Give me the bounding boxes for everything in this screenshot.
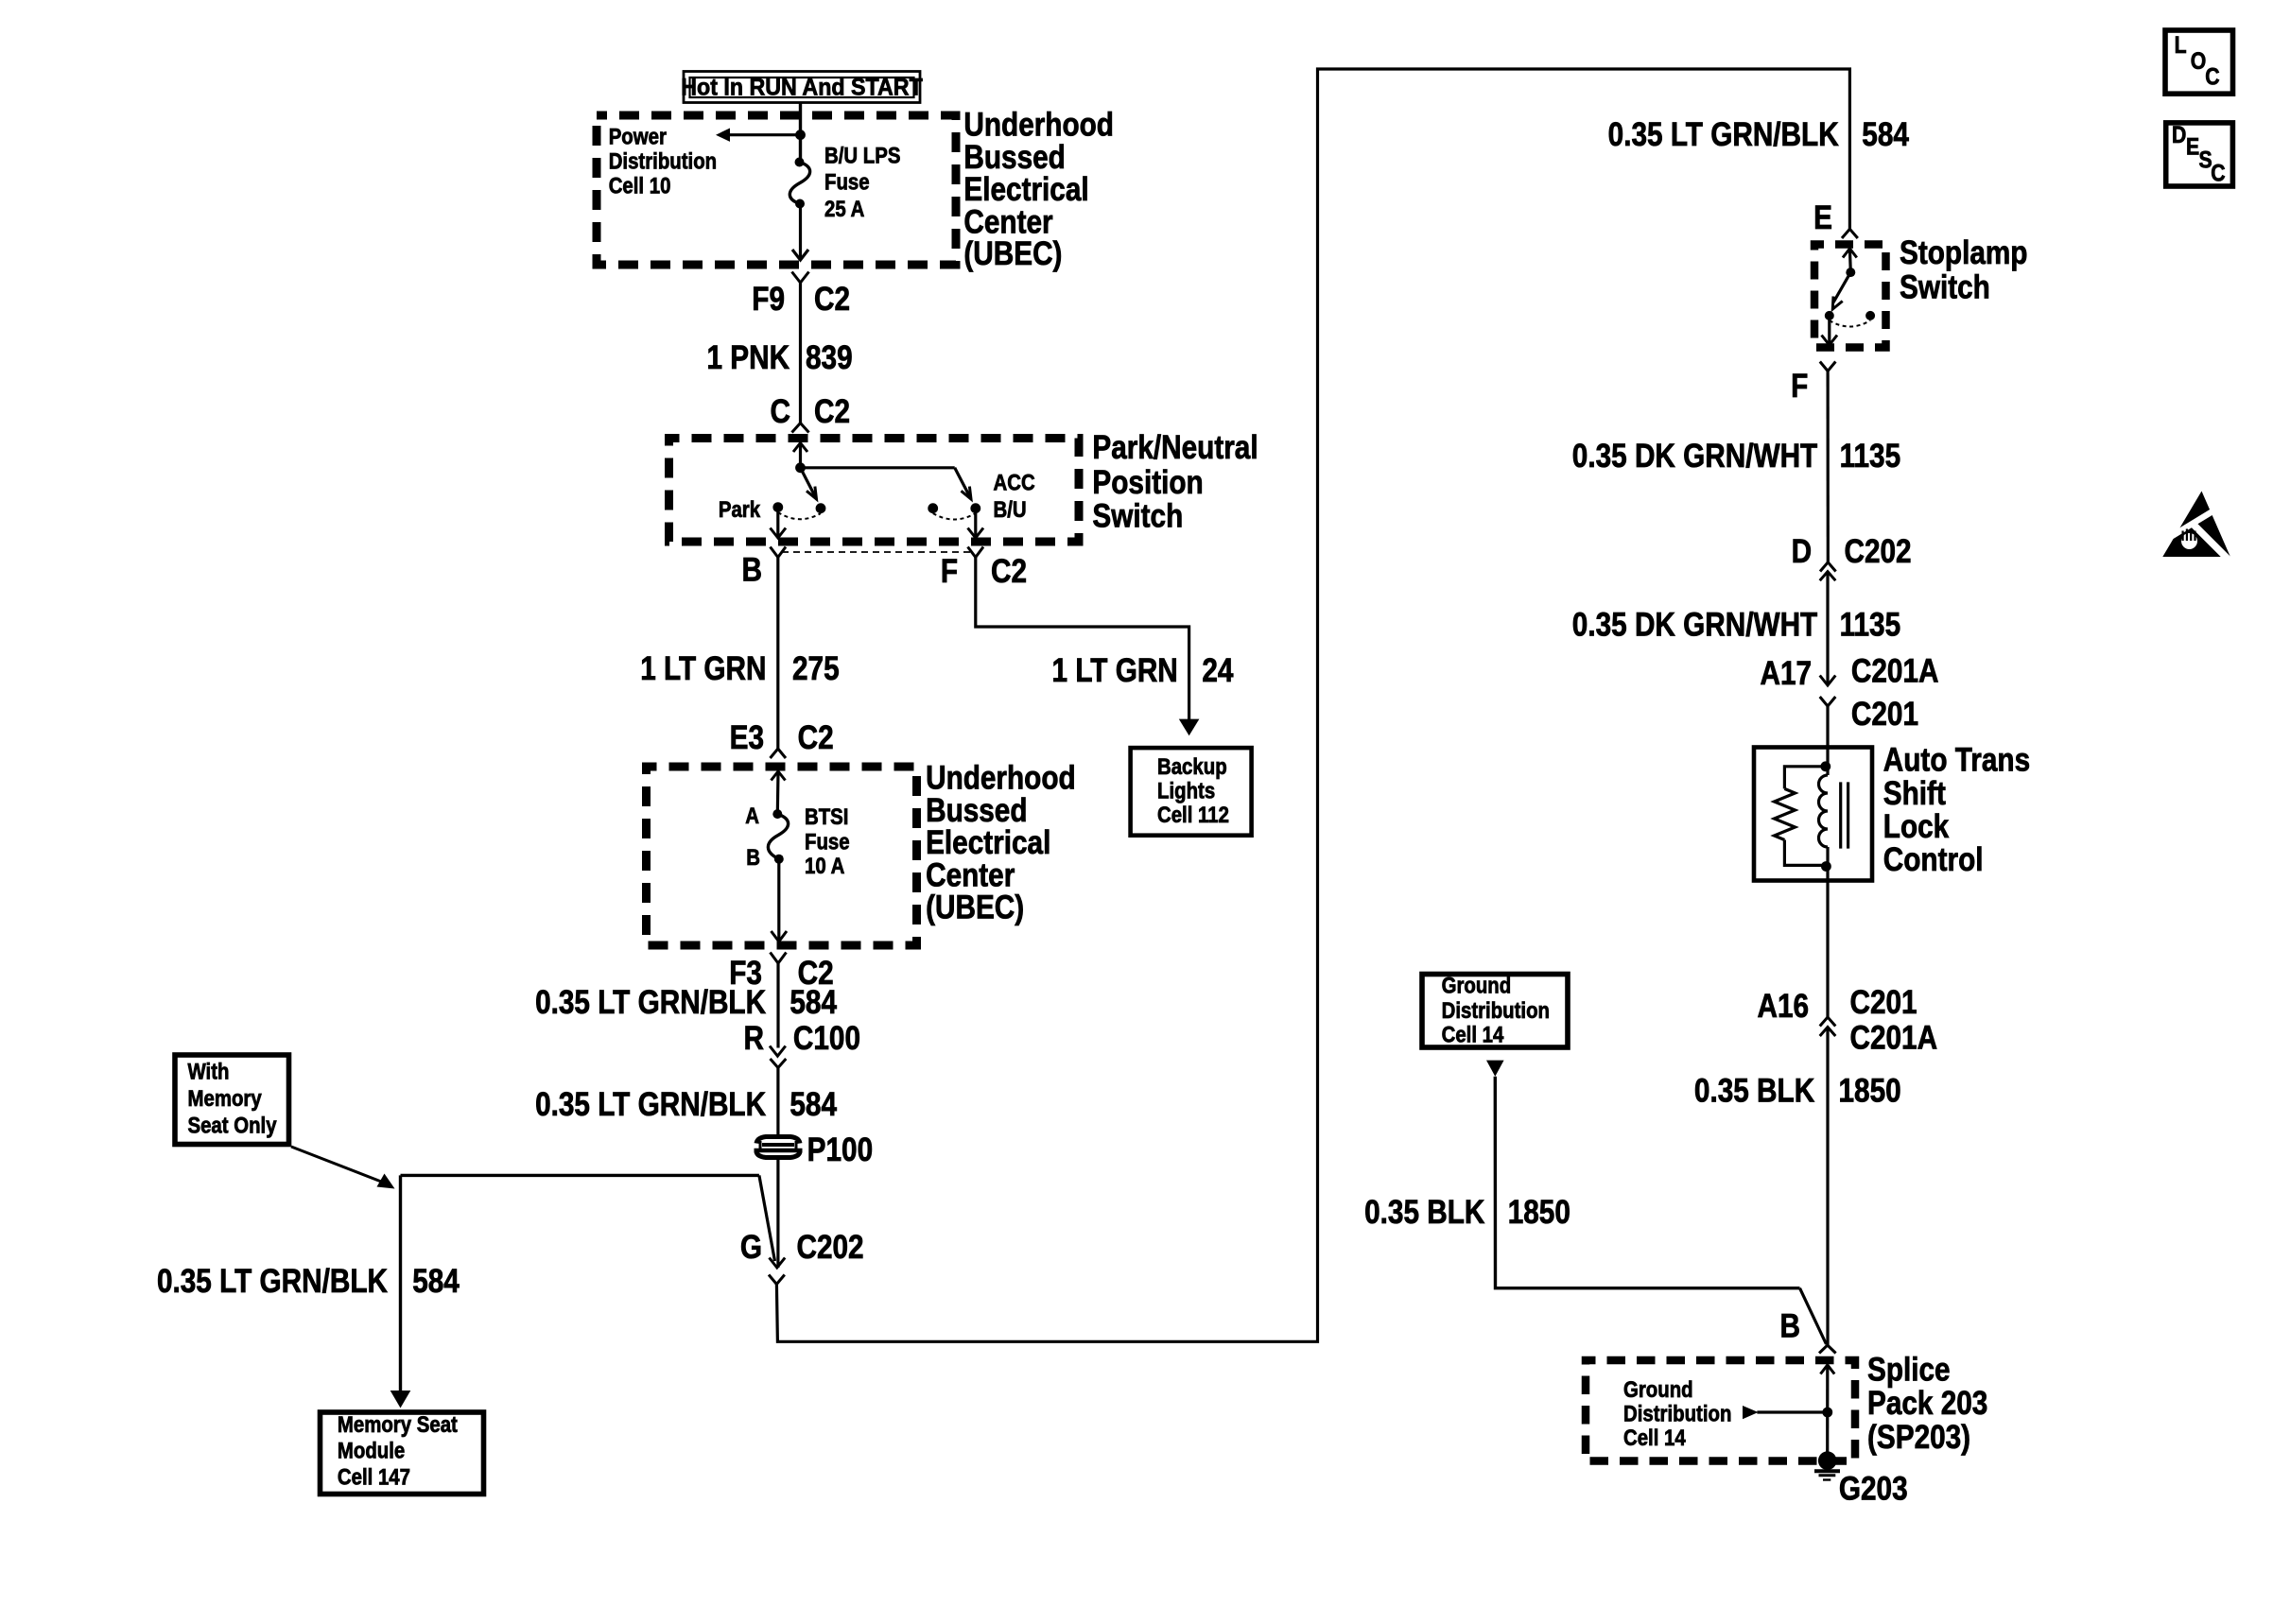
- svg-text:584: 584: [789, 984, 837, 1021]
- svg-text:0.35 BLK: 0.35 BLK: [1364, 1194, 1485, 1231]
- grommet P100: [755, 1137, 803, 1158]
- wire: P100 down to connector C202 pin G: [776, 1158, 779, 1268]
- svg-text:Shift: Shift: [1883, 775, 1946, 812]
- svg-text:BTSI: BTSI: [805, 803, 848, 829]
- svg-text:Stoplamp: Stoplamp: [1900, 234, 2027, 271]
- wire label: 1 LT GRN 24: [1052, 652, 1234, 689]
- svg-text:25 A: 25 A: [824, 196, 864, 221]
- svg-text:Electrical: Electrical: [963, 171, 1088, 208]
- legend: LOC box: [2165, 30, 2233, 94]
- symbol: ESD sensitive device: [2162, 492, 2237, 569]
- svg-text:Fuse: Fuse: [805, 829, 850, 855]
- pin label C / connector C2: [771, 393, 851, 430]
- label: Ground Distribution Cell 14 (inside splice pack): [1623, 1376, 1731, 1450]
- svg-text:Lock: Lock: [1883, 808, 1950, 845]
- svg-text:Bussed: Bussed: [963, 139, 1065, 176]
- node: Backup Lights Cell 112 box: [1131, 748, 1252, 836]
- svg-text:1850: 1850: [1839, 1072, 1901, 1109]
- svg-text:Ground: Ground: [1623, 1376, 1693, 1402]
- svg-text:Lights: Lights: [1157, 778, 1215, 803]
- wire label: 0.35 BLK 1850 (ground stub): [1364, 1194, 1570, 1231]
- svg-text:C201: C201: [1851, 696, 1918, 733]
- svg-text:Park/Neutral: Park/Neutral: [1092, 429, 1258, 466]
- switch common arrow inside (entry from C): [793, 443, 807, 474]
- svg-text:0.35 DK GRN/WHT: 0.35 DK GRN/WHT: [1572, 606, 1818, 643]
- svg-text:10 A: 10 A: [805, 853, 844, 878]
- svg-text:Control: Control: [1883, 841, 1984, 878]
- svg-text:A17: A17: [1761, 655, 1813, 692]
- wire: ground distribution stub with down triangle: [1486, 1061, 1827, 1344]
- svg-text:1135: 1135: [1840, 438, 1901, 475]
- svg-text:Auto Trans: Auto Trans: [1883, 741, 2030, 778]
- svg-text:Backup: Backup: [1157, 753, 1227, 779]
- svg-text:Switch: Switch: [1092, 497, 1183, 534]
- connector G / C202 arrow and chevron: [769, 1258, 785, 1285]
- svg-text:C: C: [2211, 160, 2226, 186]
- wire: fuse output down to UBEC border with arrow: [792, 204, 808, 261]
- svg-text:Position: Position: [1092, 464, 1203, 501]
- svg-text:Electrical: Electrical: [926, 824, 1050, 861]
- svg-text:With: With: [188, 1059, 230, 1084]
- wire: arrow to Power Distribution (left): [716, 129, 801, 142]
- in-line connector A16 / C201 C201A: [1820, 1017, 1836, 1345]
- svg-text:Distribution: Distribution: [1442, 997, 1550, 1023]
- value label: B/U LPS Fuse 25 A: [824, 143, 900, 221]
- wire: entry arrow inside UBEC 2: [772, 771, 786, 814]
- svg-text:B/U: B/U: [994, 496, 1027, 522]
- svg-text:Cell 112: Cell 112: [1157, 802, 1229, 827]
- pointer arrow from With Memory Seat Only to branch: [291, 1147, 395, 1189]
- svg-text:C201A: C201A: [1851, 652, 1939, 689]
- svg-text:Memory: Memory: [188, 1085, 263, 1111]
- svg-text:D: D: [2172, 121, 2186, 147]
- svg-text:C202: C202: [797, 1229, 864, 1266]
- svg-text:584: 584: [789, 1086, 837, 1123]
- svg-text:A16: A16: [1758, 988, 1810, 1025]
- svg-text:E3: E3: [730, 719, 764, 756]
- pin chevron F3 below UBEC 2: [771, 953, 787, 1048]
- wire: memory seat branch split (horizontal + diagonal into G): [401, 1175, 775, 1261]
- in-line connector D / C202: [1820, 562, 1836, 685]
- svg-text:0.35 LT GRN/BLK: 0.35 LT GRN/BLK: [1608, 116, 1839, 153]
- svg-text:L: L: [2175, 31, 2187, 58]
- svg-text:Switch: Switch: [1900, 268, 1990, 305]
- label: Stoplamp Switch: [1900, 234, 2027, 305]
- pin label D / connector C202: [1792, 533, 1912, 570]
- fuse B/U LPS 25 A: [789, 158, 809, 209]
- wire label: 1 LT GRN 275: [640, 650, 839, 687]
- label: Auto Trans Shift Lock Control: [1883, 741, 2030, 877]
- svg-text:C2: C2: [814, 393, 850, 430]
- svg-text:275: 275: [792, 650, 840, 687]
- pin chevron E atop stoplamp switch: [1842, 229, 1858, 238]
- wire: from C202 down, across bottom, up the left loop, across top to stoplamp: [776, 69, 1849, 1341]
- svg-text:Cell 14: Cell 14: [1623, 1425, 1686, 1450]
- svg-text:O: O: [2191, 47, 2207, 74]
- svg-text:Cell 10: Cell 10: [609, 173, 671, 199]
- pin label G / connector C202: [740, 1229, 864, 1266]
- svg-text:Fuse: Fuse: [824, 169, 870, 195]
- shift lock solenoid internals: resistor and coil in parallel: [1775, 748, 1848, 881]
- in-line connector R / C100: [770, 1046, 786, 1137]
- svg-text:0.35 DK GRN/WHT: 0.35 DK GRN/WHT: [1572, 438, 1818, 475]
- svg-text:(SP203): (SP203): [1867, 1419, 1970, 1456]
- pin label F3 / connector C2: [729, 955, 833, 992]
- svg-text:C2: C2: [798, 719, 834, 756]
- pin label R / connector C100: [744, 1020, 860, 1057]
- svg-text:0.35 BLK: 0.35 BLK: [1694, 1072, 1815, 1109]
- svg-text:839: 839: [806, 339, 853, 376]
- svg-text:Hot In RUN And START: Hot In RUN And START: [681, 75, 923, 101]
- pin chevron C atop Park/Neutral switch: [792, 423, 809, 433]
- svg-text:Distribution: Distribution: [1623, 1401, 1731, 1426]
- label: Park/Neutral Position Switch: [1092, 429, 1258, 534]
- svg-text:C201A: C201A: [1850, 1019, 1938, 1056]
- svg-text:1135: 1135: [1840, 606, 1901, 643]
- label: Power Distribution Cell 10: [609, 124, 717, 199]
- svg-text:C201: C201: [1850, 984, 1917, 1021]
- svg-text:B: B: [742, 551, 762, 588]
- svg-text:Cell 14: Cell 14: [1442, 1022, 1504, 1047]
- label: Underhood Bussed Electrical Center (UBEC) lower: [926, 759, 1076, 925]
- svg-text:Splice: Splice: [1867, 1351, 1951, 1388]
- svg-text:(UBEC): (UBEC): [926, 889, 1024, 925]
- svg-text:24: 24: [1202, 652, 1233, 689]
- switch arm to ACC B/U contact: [801, 468, 972, 499]
- node: Hot In RUN And START feed box: [681, 72, 923, 103]
- svg-text:584: 584: [412, 1263, 460, 1300]
- svg-text:Power: Power: [609, 124, 668, 149]
- pin chevron F9 below UBEC: [792, 272, 809, 423]
- svg-text:Memory Seat: Memory Seat: [338, 1411, 458, 1437]
- Park/Neutral Position Switch dashed box: [669, 439, 1080, 543]
- stoplamp switch internals: [1822, 249, 1876, 345]
- wire: Park contact down to pin B with arrow: [771, 508, 787, 538]
- svg-text:1 LT GRN: 1 LT GRN: [1052, 652, 1178, 689]
- svg-text:Distribution: Distribution: [609, 148, 717, 174]
- svg-text:Seat Only: Seat Only: [188, 1113, 278, 1138]
- svg-text:C: C: [2205, 63, 2220, 90]
- pin chevron F below switch: [968, 547, 984, 558]
- wire: from Hot In RUN feed down into UBEC: [799, 103, 802, 163]
- svg-text:B: B: [746, 844, 760, 870]
- svg-text:C: C: [771, 393, 790, 430]
- wire label: 1 PNK 839: [706, 339, 852, 376]
- in-line connector A17 / C201A C201: [1820, 676, 1836, 748]
- Splice Pack 203 dashed box: [1586, 1360, 1855, 1461]
- pin label F9 / connector C2: [752, 281, 850, 318]
- svg-text:E: E: [1813, 199, 1832, 236]
- svg-text:Module: Module: [338, 1438, 405, 1463]
- svg-text:Ground: Ground: [1442, 973, 1512, 998]
- svg-text:C202: C202: [1845, 533, 1912, 570]
- pin label A17 / connectors C201A C201: [1761, 652, 1939, 732]
- switch arm to Park contact: [801, 468, 817, 499]
- legend: DESC box: [2166, 121, 2233, 186]
- UBEC dashed box 1 (Underhood Bussed Electrical Center): [597, 115, 956, 265]
- wire label: 0.35 LT GRN/BLK 584: [535, 984, 837, 1021]
- label: ACC B/U: [994, 470, 1035, 522]
- svg-text:B/U LPS: B/U LPS: [824, 143, 900, 168]
- Park contact dots and throw arc: [772, 502, 825, 519]
- svg-text:1850: 1850: [1508, 1194, 1570, 1231]
- wire label: 0.35 DK GRN/WHT 1135: [1572, 438, 1900, 475]
- svg-text:1 PNK: 1 PNK: [706, 339, 789, 376]
- svg-text:G: G: [740, 1229, 762, 1266]
- pin chevron B below switch: [771, 547, 787, 558]
- svg-text:Underhood: Underhood: [926, 759, 1076, 796]
- wire label: 0.35 DK GRN/WHT 1135 (below C202): [1572, 606, 1900, 643]
- UBEC dashed box 2 (BTSI fuse): [647, 767, 917, 945]
- pin chevron B atop splice pack: [1819, 1345, 1836, 1354]
- svg-text:F9: F9: [752, 281, 785, 318]
- svg-text:ACC: ACC: [994, 470, 1035, 495]
- splice pack internals: [1743, 1365, 1834, 1460]
- ground G203 symbol: [1814, 1451, 1840, 1479]
- wire: pin F over and down to Backup Lights: [976, 558, 1200, 736]
- wire: ACC B/U contact down to pin F with arrow: [968, 509, 984, 538]
- wire: pin B down to E3: [776, 558, 779, 750]
- svg-text:G203: G203: [1839, 1470, 1908, 1507]
- junction dot at feed split: [795, 130, 806, 140]
- node: Memory Seat Module Cell 147 box: [321, 1411, 484, 1494]
- svg-text:F: F: [1791, 368, 1808, 405]
- pin label E3 / connector C2: [730, 719, 834, 756]
- label: With Memory Seat Only box: [175, 1055, 289, 1145]
- ACC B/U contact dots and throw arc: [928, 503, 980, 519]
- svg-text:Bussed: Bussed: [926, 792, 1027, 829]
- svg-text:0.35 LT GRN/BLK: 0.35 LT GRN/BLK: [535, 1086, 766, 1123]
- svg-text:C2: C2: [814, 281, 850, 318]
- wire: shift lock control down to A16: [1826, 880, 1829, 1017]
- svg-text:E: E: [2186, 133, 2199, 160]
- svg-text:D: D: [1792, 533, 1812, 570]
- svg-text:Cell 147: Cell 147: [338, 1464, 410, 1490]
- svg-text:(UBEC): (UBEC): [963, 235, 1062, 272]
- pin chevron F below stoplamp switch: [1820, 362, 1836, 562]
- svg-text:Pack 203: Pack 203: [1867, 1385, 1987, 1422]
- connector face dashed link between pins B and F: [782, 551, 972, 553]
- component: Auto Trans Shift Lock Control box: [1754, 748, 1872, 881]
- svg-text:C2: C2: [991, 553, 1027, 590]
- svg-text:Center: Center: [926, 856, 1015, 893]
- pin label F / connector C2: [941, 553, 1027, 590]
- svg-text:0.35 LT GRN/BLK: 0.35 LT GRN/BLK: [535, 984, 766, 1021]
- svg-text:584: 584: [1862, 116, 1909, 153]
- svg-text:Underhood: Underhood: [963, 106, 1114, 143]
- fuse BTSI 10 A: [768, 809, 788, 864]
- pin chevron E3 atop UBEC 2: [771, 749, 787, 758]
- svg-text:P100: P100: [807, 1132, 873, 1168]
- node: Ground Distribution Cell 14 box (upper): [1422, 973, 1568, 1047]
- Stoplamp Switch dashed box: [1814, 245, 1886, 348]
- wire label: 0.35 LT GRN/BLK 584 (below C100): [535, 1086, 837, 1123]
- wire label: 0.35 BLK 1850 (right spine): [1694, 1072, 1901, 1109]
- wire label: 0.35 LT GRN/BLK 584 (memory seat branch): [157, 1263, 460, 1300]
- svg-text:C100: C100: [793, 1020, 860, 1057]
- svg-text:Park: Park: [719, 496, 761, 522]
- pin label A16 / connectors C201 C201A: [1758, 984, 1938, 1056]
- svg-text:0.35 LT GRN/BLK: 0.35 LT GRN/BLK: [157, 1263, 388, 1300]
- svg-text:R: R: [744, 1020, 764, 1057]
- svg-text:A: A: [745, 803, 759, 828]
- svg-text:B: B: [1780, 1307, 1800, 1344]
- label: Splice Pack 203 (SP203): [1867, 1351, 1987, 1455]
- wire label: 0.35 LT GRN/BLK 584 (top right): [1608, 116, 1909, 153]
- value label: BTSI Fuse 10 A: [805, 803, 850, 878]
- label: Underhood Bussed Electrical Center (UBEC) top: [963, 106, 1114, 271]
- svg-text:F: F: [941, 553, 958, 590]
- wire: fuse output to UBEC 2 border with arrow: [772, 859, 788, 942]
- svg-text:1 LT GRN: 1 LT GRN: [640, 650, 766, 687]
- wire: branch down to Memory Seat Module: [390, 1175, 411, 1408]
